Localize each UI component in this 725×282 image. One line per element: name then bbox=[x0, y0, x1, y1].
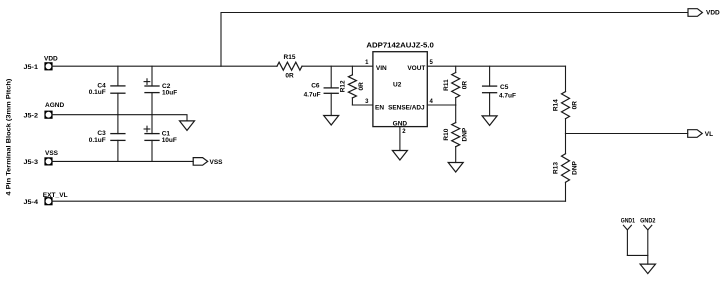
svg-text:10uF: 10uF bbox=[162, 137, 177, 144]
capacitor C4 0.1uF bbox=[89, 66, 125, 115]
svg-text:0R: 0R bbox=[462, 81, 469, 90]
svg-text:VL: VL bbox=[705, 131, 713, 138]
svg-text:DNP: DNP bbox=[462, 127, 469, 141]
net label VDD at J5-1 bbox=[44, 56, 58, 63]
test point GND1 bbox=[621, 217, 636, 255]
pin number 1 (VIN) bbox=[365, 60, 369, 66]
svg-text:0R: 0R bbox=[285, 73, 294, 80]
pin number 2 (GND) bbox=[402, 129, 406, 135]
svg-text:VDD: VDD bbox=[44, 56, 58, 63]
svg-text:0R: 0R bbox=[358, 82, 365, 91]
pin number 3 (EN) bbox=[365, 99, 369, 105]
svg-text:VDD: VDD bbox=[706, 9, 720, 16]
wire EXT_VL row bbox=[53, 200, 566, 202]
svg-text:0.1uF: 0.1uF bbox=[89, 89, 106, 96]
capacitor C2 10uF polarized bbox=[144, 66, 177, 115]
net label AGND at J5-2 bbox=[45, 102, 64, 109]
resistor R13 DNP bbox=[553, 134, 579, 202]
wire R15 to VIN pin 1 bbox=[302, 65, 373, 67]
connector pin J5-4 bbox=[24, 197, 53, 206]
svg-text:3: 3 bbox=[365, 99, 369, 105]
svg-text:1: 1 bbox=[365, 60, 369, 66]
net label VSS at J5-3 bbox=[45, 150, 59, 157]
svg-text:R11: R11 bbox=[443, 79, 450, 91]
ground symbol AGND bbox=[180, 121, 195, 130]
ground symbol below C6 bbox=[324, 116, 339, 126]
svg-text:GND2: GND2 bbox=[640, 217, 656, 224]
svg-text:J5-4: J5-4 bbox=[24, 199, 39, 206]
svg-text:ADP7142AUJZ-5.0: ADP7142AUJZ-5.0 bbox=[366, 43, 434, 50]
capacitor C6 4.7uF bbox=[304, 66, 339, 115]
svg-text:SENSE/ADJ: SENSE/ADJ bbox=[388, 105, 425, 112]
connector pin J5-1 bbox=[24, 62, 53, 71]
connector pin J5-2 bbox=[24, 111, 53, 120]
svg-text:0R: 0R bbox=[571, 101, 578, 110]
svg-text:2: 2 bbox=[402, 129, 406, 135]
wire VOUT pin 5 to R14 bbox=[427, 65, 565, 67]
svg-text:DNP: DNP bbox=[571, 160, 578, 174]
svg-text:10uF: 10uF bbox=[162, 90, 177, 97]
terminal block label "4 Pin Terminal Block (3mm Pitch)" bbox=[6, 79, 13, 196]
capacitor C5 4.7uF bbox=[483, 66, 516, 116]
svg-text:R15: R15 bbox=[284, 54, 296, 61]
capacitor C1 10uF polarized bbox=[144, 115, 177, 162]
net label EXT_VL at J5-4 bbox=[43, 192, 68, 199]
ground symbol below C5 bbox=[482, 116, 497, 126]
wire GND1 to GND2 join bbox=[627, 254, 647, 256]
svg-text:C6: C6 bbox=[311, 83, 320, 90]
svg-text:R13: R13 bbox=[553, 162, 560, 174]
pin number 4 (SENSE/ADJ) bbox=[430, 99, 434, 105]
svg-text:4.7uF: 4.7uF bbox=[304, 91, 321, 98]
svg-text:R14: R14 bbox=[553, 99, 560, 111]
svg-text:C5: C5 bbox=[500, 84, 509, 91]
connector pin J5-3 bbox=[24, 157, 53, 166]
svg-text:VIN: VIN bbox=[376, 65, 387, 72]
wire SENSE/ADJ pin 4 to R11 bbox=[427, 104, 455, 106]
wire VSS row bbox=[53, 160, 194, 162]
wire VL row to flag bbox=[566, 133, 688, 135]
svg-text:4: 4 bbox=[430, 99, 434, 105]
svg-text:0.1uF: 0.1uF bbox=[89, 137, 106, 144]
capacitor C3 0.1uF bbox=[89, 115, 125, 162]
svg-text:U2: U2 bbox=[393, 81, 402, 88]
svg-text:R10: R10 bbox=[443, 128, 450, 140]
svg-text:J5-2: J5-2 bbox=[24, 112, 39, 119]
svg-text:4.7uF: 4.7uF bbox=[499, 93, 516, 100]
pin number 5 (VOUT) bbox=[430, 60, 434, 66]
wire VDD from J5-1 to R15 bbox=[53, 65, 277, 67]
power flag VL bbox=[688, 130, 713, 139]
wire AGND row bbox=[53, 115, 187, 121]
svg-text:4 Pin Terminal Block (3mm Pitc: 4 Pin Terminal Block (3mm Pitch) bbox=[6, 79, 13, 196]
ground symbol below GND2 bbox=[640, 264, 655, 274]
wire GND pin 2 stub bbox=[399, 127, 401, 151]
svg-text:J5-1: J5-1 bbox=[24, 64, 39, 71]
wire EN pin 3 bbox=[352, 104, 373, 106]
resistor R12 0R bbox=[340, 66, 366, 105]
resistor R14 0R bbox=[553, 66, 579, 133]
svg-text:VSS: VSS bbox=[45, 150, 59, 157]
svg-text:EN: EN bbox=[375, 105, 384, 112]
resistor R15 0R bbox=[277, 54, 302, 80]
svg-text:VOUT: VOUT bbox=[407, 65, 425, 72]
resistor R11 0R bbox=[443, 66, 469, 105]
svg-text:GND1: GND1 bbox=[621, 217, 636, 224]
test point GND2 bbox=[640, 217, 656, 264]
ground symbol below R10 bbox=[448, 163, 463, 173]
svg-text:5: 5 bbox=[430, 60, 434, 66]
ground symbol below U2 bbox=[392, 151, 407, 161]
svg-text:J5-3: J5-3 bbox=[24, 159, 39, 166]
power flag VSS bbox=[193, 158, 223, 167]
svg-text:R12: R12 bbox=[340, 80, 347, 92]
wire VDD rail up and across top to flag bbox=[221, 13, 688, 67]
resistor R10 DNP bbox=[443, 105, 469, 163]
svg-text:EXT_VL: EXT_VL bbox=[43, 192, 68, 199]
svg-text:AGND: AGND bbox=[45, 102, 64, 109]
svg-text:VSS: VSS bbox=[210, 159, 224, 166]
regulator U2 ADP7142AUJZ-5.0 bbox=[366, 43, 434, 128]
power flag VDD top right bbox=[688, 9, 720, 17]
